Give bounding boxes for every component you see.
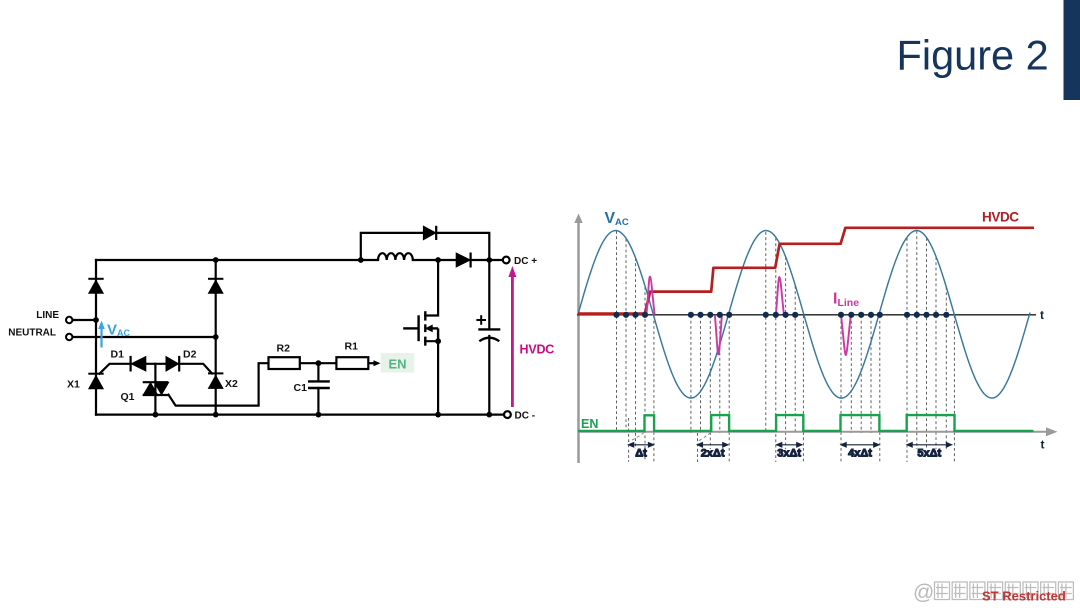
wire after coil <box>413 259 456 261</box>
wire drain <box>425 260 438 316</box>
y axis <box>574 214 582 464</box>
arrow Vac <box>98 321 105 348</box>
Iline pulse D <box>841 315 851 355</box>
svg-text:4xΔt: 4xΔt <box>848 448 872 460</box>
svg-text:DC -: DC - <box>515 410 536 421</box>
capacitor C1 <box>308 381 330 388</box>
wire D2 to X2 gate <box>179 364 212 374</box>
wire bypass to output <box>436 233 489 260</box>
t axis <box>577 314 1036 316</box>
EN axis gray <box>579 427 1058 436</box>
svg-text:X2: X2 <box>225 378 238 390</box>
svg-text:Q1: Q1 <box>121 391 135 403</box>
dashed leader arrow1 <box>629 433 644 442</box>
arrow EN input <box>374 360 381 366</box>
EN box <box>381 353 414 373</box>
diode DR (rail2 bridge) <box>208 279 223 293</box>
terminal DC+ <box>503 257 510 264</box>
wire source <box>425 341 438 414</box>
wire output cap top <box>488 260 490 329</box>
wire C1 bottom <box>317 388 319 415</box>
wire R1 to EN <box>368 362 374 364</box>
svg-text:NEUTRAL: NEUTRAL <box>8 328 56 339</box>
svg-text:DC +: DC + <box>514 256 537 267</box>
svg-text:t: t <box>1041 438 1045 452</box>
axis dots <box>613 312 949 318</box>
dimension arrows <box>629 443 952 460</box>
resistor R1 <box>336 357 368 369</box>
svg-text:HVDC: HVDC <box>982 210 1019 225</box>
svg-text:R2: R2 <box>277 342 291 354</box>
svg-text:t: t <box>1040 308 1044 322</box>
svg-text:Figure 2: Figure 2 <box>897 32 1049 79</box>
Iline pulse C <box>776 277 784 315</box>
svg-text:VAC: VAC <box>107 322 131 339</box>
wire X1 gate to D1 <box>100 364 131 374</box>
terminal NEUTRAL <box>66 334 72 340</box>
svg-text:2xΔt: 2xΔt <box>701 448 725 460</box>
wire left rail <box>95 260 97 415</box>
wire diode to DC+ <box>471 259 503 261</box>
wire Q1 vertical <box>154 364 156 415</box>
wire output cap bottom <box>488 336 490 415</box>
plus sign C2 <box>476 315 486 325</box>
HVDC staircase <box>578 228 1034 314</box>
thyristor X2 <box>208 373 223 388</box>
wire bottom rail <box>96 414 504 416</box>
diode D5 boost <box>456 253 470 268</box>
wire C1 top <box>317 363 319 381</box>
arrow HVDC circuit <box>508 266 516 407</box>
svg-text:Δt: Δt <box>635 448 647 460</box>
dashed sample lines <box>617 231 955 462</box>
junction dots <box>93 257 492 417</box>
svg-text:LINE: LINE <box>36 310 59 321</box>
Iline pulse B <box>715 315 722 355</box>
capacitor C2 output <box>478 329 500 341</box>
wire LINE lead <box>72 319 96 321</box>
wire R2 to R1 <box>300 362 337 364</box>
diode D1 <box>131 356 146 372</box>
thyristor X1 <box>88 374 103 389</box>
svg-text:D1: D1 <box>111 349 125 361</box>
diode D4 bypass <box>423 226 436 240</box>
terminal DC- <box>504 411 511 418</box>
svg-text:5xΔt: 5xΔt <box>917 448 941 460</box>
svg-text:VAC: VAC <box>605 210 629 228</box>
wire D1-D2 link <box>146 363 166 365</box>
wire rail2 <box>215 260 217 415</box>
terminal LINE <box>66 317 72 323</box>
svg-text:EN: EN <box>581 417 598 431</box>
svg-text:D2: D2 <box>183 349 197 361</box>
wire top rail <box>96 259 378 261</box>
svg-text:@: @ <box>913 581 934 604</box>
navy corner bar <box>1064 0 1080 100</box>
svg-text:EN: EN <box>388 356 406 371</box>
svg-text:X1: X1 <box>67 379 80 391</box>
wire Q1 gate run <box>169 363 269 405</box>
wire bypass branch <box>361 233 424 260</box>
svg-text:ILine: ILine <box>833 291 859 310</box>
Iline pulse A <box>646 277 654 315</box>
svg-text:C1: C1 <box>294 382 308 394</box>
svg-text:R1: R1 <box>345 340 359 352</box>
svg-text:HVDC: HVDC <box>520 342 555 356</box>
wire NEUTRAL lead <box>72 336 215 338</box>
diode D2 <box>166 356 179 372</box>
svg-text:ST Restricted: ST Restricted <box>982 589 1066 604</box>
resistor R2 <box>269 357 300 369</box>
svg-text:3xΔt: 3xΔt <box>777 448 801 460</box>
diode DL (left bridge) <box>88 279 103 293</box>
inductor L1 <box>378 253 413 260</box>
sine Vac <box>578 231 1030 399</box>
mosfet Q2 <box>403 311 438 346</box>
EN waveform <box>578 415 1034 431</box>
dashed leader arrow2 <box>698 433 711 442</box>
triac Q1 <box>143 382 170 395</box>
